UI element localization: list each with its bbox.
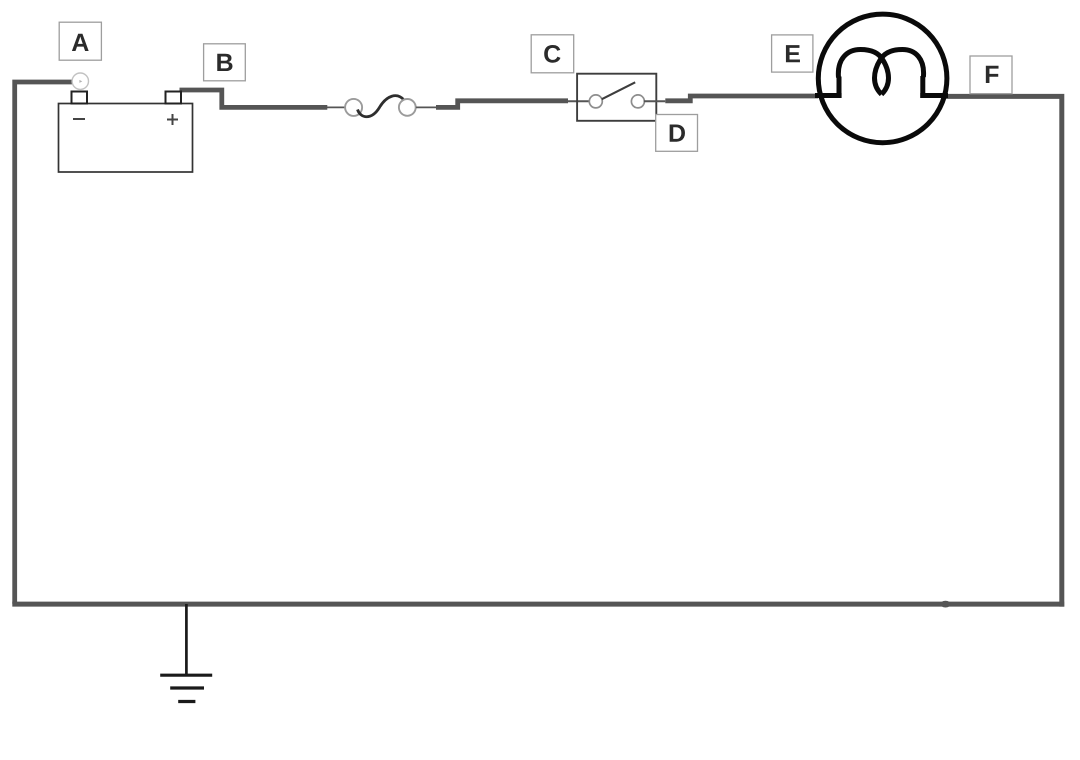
- battery BT1 negative terminal: [72, 92, 88, 104]
- wire bottom rail: [12, 602, 1064, 607]
- label E letter: [786, 45, 800, 62]
- ground bar 1: [160, 674, 212, 677]
- wire step up to switch: [436, 101, 568, 108]
- switch S1 right contact: [631, 95, 644, 108]
- label E box: [772, 35, 813, 72]
- fuse F1 right terminal circle: [399, 99, 416, 116]
- wire node B to fuse (thin lead): [327, 106, 345, 108]
- label D box: [656, 115, 698, 152]
- battery BT1 positive terminal: [166, 92, 182, 104]
- node A connector circle: [72, 73, 88, 89]
- lamp L1 filament right chord: [920, 93, 948, 98]
- lamp L1 filament right post: [920, 76, 925, 98]
- label C letter: [544, 45, 560, 63]
- label B letter: [217, 54, 232, 71]
- lamp L1 filament left post: [837, 77, 842, 99]
- switch S1 enclosure box: [577, 74, 656, 121]
- wire out of switch (thin lead, node D): [644, 100, 666, 102]
- wire into switch (thin lead, node C): [568, 100, 590, 102]
- label F box: [970, 56, 1012, 94]
- wire fuse to step (thin lead): [416, 106, 436, 108]
- wire step up to lamp: [665, 96, 818, 101]
- ground stem: [185, 604, 188, 675]
- switch S1 lever (open): [602, 82, 635, 99]
- junction on bottom rail: [940, 601, 950, 608]
- label D letter: [670, 125, 685, 142]
- lamp L1 envelope circle: [818, 14, 947, 143]
- label A box: [59, 22, 101, 60]
- lamp L1 filament right loop: [875, 50, 924, 95]
- fuse F1 left terminal circle: [345, 99, 362, 116]
- battery BT1 minus sign: [73, 118, 85, 120]
- wire battery positive to node B step: [180, 90, 328, 107]
- label F letter: [986, 66, 999, 83]
- battery BT1 body: [59, 104, 193, 173]
- ground bar 3: [178, 700, 195, 703]
- label B box: [204, 44, 246, 81]
- switch S1 left contact: [589, 95, 602, 108]
- label C box: [531, 35, 574, 73]
- battery BT1 plus sign: [167, 114, 178, 125]
- wire left rail (node A to bottom-left corner): [15, 82, 73, 604]
- label A letter: [72, 34, 89, 51]
- ground bar 2: [170, 686, 204, 689]
- wire right rail (lamp to bottom-right corner): [946, 96, 1062, 606]
- lamp L1 filament left loop: [838, 50, 888, 95]
- fuse F1 element (S-curve): [358, 96, 405, 117]
- lamp L1 filament left chord: [815, 93, 842, 98]
